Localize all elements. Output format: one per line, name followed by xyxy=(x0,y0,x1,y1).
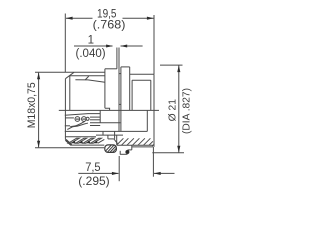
body left edge (front face) xyxy=(64,79,66,140)
body inner chamfer line xyxy=(69,76,71,111)
insert section: slanted shelf line xyxy=(65,114,100,116)
dimension 7,5 arrow left (outside, points right) xyxy=(112,172,119,175)
wall step horizontal xyxy=(108,138,114,140)
dimension 7,5 arrow right (outside, points left) xyxy=(154,172,161,175)
dimension dia21 arrow up xyxy=(177,65,180,72)
dimension 7,5 extension line left xyxy=(118,156,120,181)
svg-text:Ø 21: Ø 21 xyxy=(168,99,179,122)
ring bottom left vertical xyxy=(119,151,121,155)
collar front face xyxy=(104,69,106,108)
wall step diagonal to seal xyxy=(114,139,118,144)
o-ring seal section (dark hatched) xyxy=(105,145,117,153)
insert section: spring line 1 xyxy=(90,116,100,118)
inner rear boss right edge xyxy=(150,80,152,110)
dimension M18 extension line top (merged with thread crest line) xyxy=(35,71,105,73)
collar top edge xyxy=(105,68,117,70)
dimension M18 extension line bottom (merged with thread bottom crest) xyxy=(35,147,104,149)
dimension dia21 extension line bottom xyxy=(152,152,184,154)
dimension M18 arrow up xyxy=(37,73,40,80)
insert section: spring line 2 xyxy=(90,119,100,121)
rear cavity bottom line xyxy=(65,130,148,132)
thread relief line (slight slant) xyxy=(75,80,105,83)
svg-text:(.768): (.768) xyxy=(93,18,126,32)
bottom wall inner line xyxy=(65,136,96,138)
svg-text:7,5: 7,5 xyxy=(85,160,101,174)
thread section slash 3 xyxy=(83,138,94,143)
washer tie line 1 xyxy=(119,73,121,75)
contact tail curve xyxy=(70,121,85,126)
dimension diameter 21 dimension line xyxy=(178,65,180,152)
dimension 7,5 (.295) line left segment with arrow xyxy=(78,172,118,174)
thread cut triangle 4 xyxy=(94,140,98,143)
dimension 19,5 arrow left xyxy=(66,17,73,20)
flange ring front face xyxy=(120,67,122,131)
ring bottom step horizontal xyxy=(128,149,132,151)
hatch band left edge xyxy=(116,135,118,145)
inner rear boss left edge xyxy=(131,80,133,110)
washer tie line 2 xyxy=(119,103,121,105)
thread section slash 2 xyxy=(76,138,87,143)
dimension 19,5 arrow right xyxy=(147,17,154,20)
flange ring right face xyxy=(129,67,131,111)
insert section: contact line long xyxy=(90,122,120,124)
rear body bottom edge xyxy=(132,146,153,148)
contact circlet xyxy=(86,117,89,120)
svg-text:(DIA .827): (DIA .827) xyxy=(181,88,193,134)
dimension M18 arrow down xyxy=(37,141,40,148)
dimension 19,5 line right segment xyxy=(123,17,154,19)
dimension 7,5 extension line right xyxy=(152,147,154,177)
washer front line xyxy=(118,48,120,132)
ring bottom step vertical xyxy=(131,145,133,150)
thread section slash 4 xyxy=(91,138,102,143)
section hatch band diagonals xyxy=(117,138,154,146)
thread runout diagonal xyxy=(85,76,89,80)
dimension 1 arrow (points left at right ext line) xyxy=(120,44,127,47)
body front-left chamfer xyxy=(65,72,74,78)
thread section slash 1 xyxy=(68,138,79,143)
insert section: left line to contact xyxy=(65,117,74,119)
contact slot mark 2 xyxy=(82,118,86,120)
ring bottom dark corner xyxy=(125,150,129,154)
insert section: small left line xyxy=(65,125,70,127)
dimension 1 (.040) line left segment xyxy=(74,45,113,47)
body bottom-left chamfer edge xyxy=(65,139,71,144)
dimension 7,5 line right segment xyxy=(154,172,175,174)
thread cut triangle 1 xyxy=(72,140,76,143)
washer ext line (1mm dim) xyxy=(116,48,118,69)
thread cut triangle 3 xyxy=(87,140,91,143)
dimension 1 arrow (points right toward ext lines) xyxy=(106,44,113,47)
dimension 1 line right segment xyxy=(121,45,143,47)
dimension 19,5 line left segment xyxy=(66,17,93,19)
inner rear boss top edge xyxy=(132,79,151,81)
socket contact circle 2 xyxy=(82,117,87,122)
wall step vertical 0 xyxy=(102,131,104,135)
dimension 19,5 (.768) extension line left xyxy=(64,14,66,73)
rear body right face xyxy=(153,74,155,147)
insert section: spring line 3 xyxy=(90,125,100,127)
thread cut triangle 2 xyxy=(79,140,83,143)
contact slot mark 1 xyxy=(76,118,80,120)
svg-text:(.295): (.295) xyxy=(78,174,109,188)
svg-text:M18x0,75: M18x0,75 xyxy=(26,82,38,128)
dimension dia21 arrow down xyxy=(177,146,180,153)
insert section: vertical divider xyxy=(99,110,101,122)
thread section bottom line xyxy=(71,144,104,146)
dimension 19,5 (.768) extension line right xyxy=(153,15,155,74)
section hatch band bottom line xyxy=(117,144,153,146)
svg-text:1: 1 xyxy=(88,35,94,47)
bottom wall step line xyxy=(96,134,123,136)
collar keyway step xyxy=(105,108,110,110)
svg-text:(.040): (.040) xyxy=(76,48,106,60)
dimension M18x0,75 dimension line xyxy=(38,73,40,148)
contact solder squiggle xyxy=(67,123,88,129)
flange ring top edge xyxy=(121,66,130,68)
rear cavity right edge xyxy=(146,110,148,131)
wall step vertical xyxy=(107,135,109,139)
body bottom-left chamfer (dark) xyxy=(66,140,72,145)
rear body top edge xyxy=(130,73,154,75)
wall step vertical 2 xyxy=(114,131,116,139)
socket contact circle 1 xyxy=(75,117,80,122)
thread section slash 5 (partial) xyxy=(98,139,104,143)
dimension dia21 extension line top xyxy=(160,64,183,66)
thread root line xyxy=(70,75,105,77)
centerline (connector axis) xyxy=(59,109,159,111)
flange ring bottom edge xyxy=(120,153,128,155)
